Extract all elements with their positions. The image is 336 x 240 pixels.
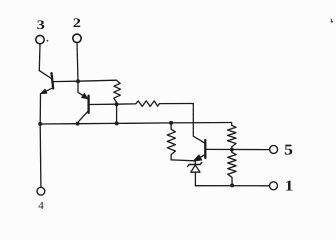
node R1 bottom junction — [115, 102, 119, 106]
resistor R1 — [114, 80, 121, 104]
transistor Q1 base bar — [52, 73, 54, 88]
wire left rail — [39, 94, 42, 188]
resistor R4 — [228, 123, 236, 150]
wire terminal 1 line — [195, 185, 269, 187]
transistor Q1 collector — [39, 71, 50, 79]
node R1-link bus junction — [115, 121, 119, 125]
transistor Q1 emitter — [41, 88, 52, 93]
svg-text:2: 2 — [73, 15, 81, 30]
svg-text:1: 1 — [285, 178, 294, 194]
transistor Q2 base wire — [89, 103, 117, 105]
node junction T2/Q1 base — [76, 79, 80, 83]
svg-text:3: 3 — [37, 17, 46, 32]
svg-text:5: 5 — [284, 143, 293, 159]
wire R1 junction down to bus — [116, 104, 118, 123]
wire terminal3 lead — [38, 44, 41, 71]
transistor Q2 collector — [78, 111, 89, 123]
node bus left junction — [38, 122, 42, 126]
transistor Q3 base bar — [204, 140, 206, 158]
transistor Q1 emitter arrow — [41, 89, 47, 94]
node R5 bottom junction — [230, 183, 234, 187]
transistor Q3 emitter arrow — [194, 155, 202, 161]
wire terminal2 lead — [77, 43, 78, 82]
wire ground bus — [40, 123, 231, 125]
terminal 1 circle — [270, 182, 278, 190]
resistor R3 — [167, 123, 175, 160]
diode zener D1 lead bottom — [194, 172, 196, 186]
node Q2 collector junction — [76, 122, 80, 126]
terminal 2 circle — [73, 34, 81, 42]
diode zener D1 cathode bar — [188, 162, 202, 166]
node R3 top junction — [169, 121, 173, 125]
wire Q3 base / terminal 5 — [206, 148, 270, 150]
resistor R2 — [117, 101, 194, 107]
transistor Q2 emitter arrow — [82, 93, 89, 99]
wire R3 to zener node — [171, 159, 195, 162]
speck top right — [331, 19, 334, 24]
speck near terminal 3 — [47, 40, 49, 42]
terminal 5 circle — [270, 145, 278, 153]
transistor Q2 emitter — [78, 81, 88, 98]
transistor Q3 emitter — [194, 155, 205, 161]
node R4/R5/base junction — [230, 148, 234, 152]
transistor Q3 collector — [193, 104, 204, 143]
terminal 3 circle — [36, 35, 44, 43]
resistor R5 — [228, 150, 236, 186]
terminal 4 circle — [37, 187, 45, 195]
diode zener D1 triangle — [191, 165, 200, 172]
svg-text:4: 4 — [38, 200, 44, 212]
transistor Q2 base bar — [87, 96, 89, 113]
diode zener D1 lead top — [194, 161, 196, 165]
wire Q1 base to R1 — [53, 80, 117, 81]
